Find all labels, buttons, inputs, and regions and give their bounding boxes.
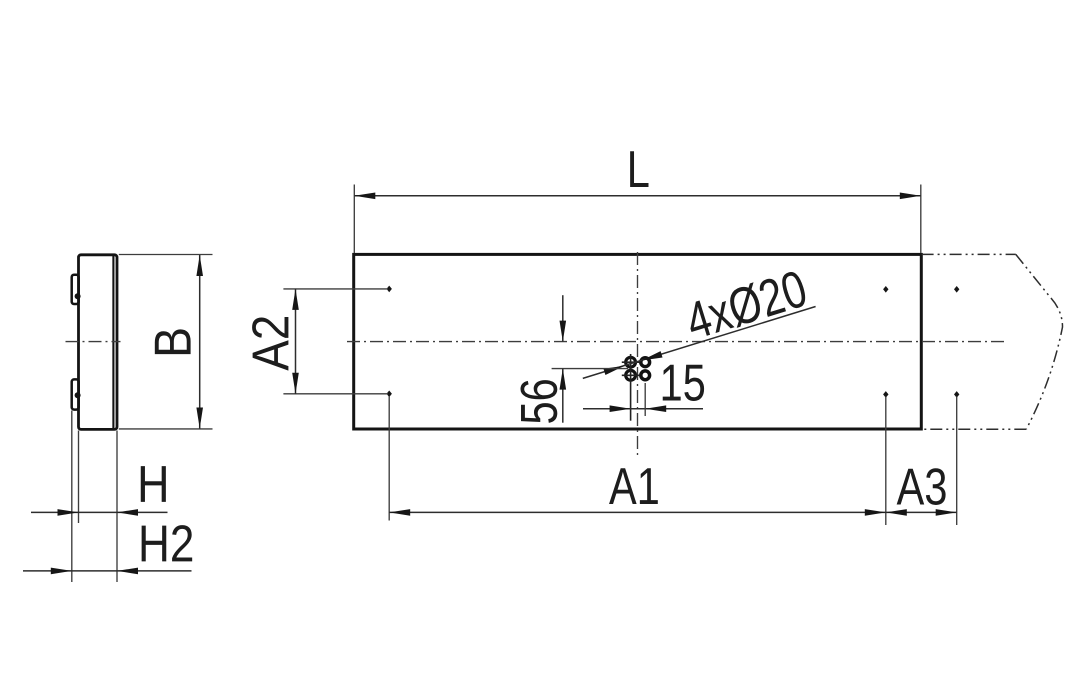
dimension A2 label bbox=[252, 317, 288, 371]
hole group circle top-right bbox=[641, 358, 650, 367]
dimension B extension line top bbox=[119, 254, 213, 256]
dimension A3 arrow right bbox=[936, 509, 957, 516]
clip tab upper bbox=[72, 275, 79, 304]
dimension L line bbox=[354, 195, 921, 197]
dimension H2 arrow right bbox=[117, 568, 138, 575]
label 4xO20 bbox=[683, 269, 809, 341]
dimension 56 line upper tail bbox=[562, 295, 564, 341]
dimension L arrow right bbox=[900, 193, 921, 200]
dimension L label bbox=[630, 151, 648, 187]
hole marker bottom-right bbox=[954, 391, 959, 398]
dimension A2 arrow top bbox=[292, 289, 299, 310]
hole marker top-left bbox=[387, 286, 392, 293]
dimension H arrow right bbox=[117, 509, 138, 516]
dimension H2 arrow left bbox=[51, 568, 72, 575]
dimension A1 line bbox=[389, 511, 886, 513]
dimension H line bbox=[31, 511, 168, 513]
dimension 56 arrow lower bbox=[560, 369, 567, 390]
main vertical center line bbox=[637, 252, 639, 457]
hole group circle bottom-right bbox=[641, 371, 650, 380]
hole group cross horizontal top bbox=[622, 361, 640, 363]
dimension A2 extension bottom bbox=[283, 393, 388, 395]
dimension L extension left bbox=[353, 185, 355, 254]
hole marker top-right bbox=[954, 286, 959, 293]
dimension 15 label bbox=[663, 365, 704, 401]
dimension 56 arrow upper bbox=[560, 321, 567, 342]
hole marker top-mid bbox=[883, 286, 888, 293]
dimension H label bbox=[141, 466, 166, 502]
dimension B arrow bottom bbox=[196, 408, 203, 429]
dimension 56 line lower tail bbox=[562, 369, 564, 423]
phantom break outline top bbox=[922, 253, 1016, 255]
hole marker bottom-left bbox=[387, 391, 392, 398]
hole group cross horizontal bottom bbox=[622, 374, 640, 376]
clip detent lower bbox=[75, 392, 81, 398]
dimension A1 extension left bbox=[388, 396, 390, 521]
dimension A1/A3 extension mid bbox=[885, 397, 887, 526]
leader line 4xO20 bbox=[583, 307, 816, 379]
dimension A1 arrow right bbox=[865, 509, 886, 516]
dimension A2 arrow bottom bbox=[292, 373, 299, 394]
dimension A3 extension right bbox=[956, 397, 958, 526]
main horizontal center line bbox=[347, 341, 1005, 343]
hole marker bottom-mid bbox=[883, 391, 888, 398]
side view body plate bbox=[79, 255, 118, 430]
dimension B label bbox=[155, 329, 191, 354]
side view inner face line bbox=[112, 256, 114, 429]
clip detent upper bbox=[75, 293, 81, 299]
dimension B line bbox=[199, 255, 201, 429]
dimension A3 label bbox=[897, 468, 946, 505]
dimension 56 label bbox=[520, 380, 557, 423]
dimension 15 extension right bbox=[644, 383, 646, 416]
dimension 15 arrow right bbox=[645, 405, 666, 412]
dimension 15 arrow left bbox=[610, 405, 631, 412]
clip tab lower bbox=[72, 379, 79, 409]
H/H2 extension line (clip face) bbox=[71, 411, 73, 583]
hole group cross vertical bbox=[630, 354, 632, 421]
dimension 15 line bbox=[583, 408, 703, 410]
side view center line bbox=[66, 341, 121, 343]
dimension B extension line bottom bbox=[119, 428, 213, 430]
dimension A1 label bbox=[609, 468, 658, 504]
dimension A1 arrow left bbox=[389, 509, 410, 516]
leader arrow upper-right bbox=[641, 351, 663, 364]
phantom break outline right bbox=[1016, 254, 1063, 429]
main plate outline bbox=[354, 254, 922, 429]
hole group circle bottom-left bbox=[626, 370, 636, 380]
phantom break outline bottom bbox=[922, 428, 1027, 430]
dimension L extension right bbox=[920, 185, 922, 254]
dimension A3 line bbox=[886, 511, 957, 513]
H/H2 extension line (outer face) bbox=[116, 431, 118, 583]
dimension A3 arrow left bbox=[886, 509, 907, 516]
dimension A2 extension top bbox=[283, 288, 388, 290]
dimension B arrow top bbox=[196, 255, 203, 276]
leader arrow lower-left bbox=[603, 363, 625, 376]
dimension H2 label bbox=[142, 525, 193, 561]
H extension line (body face) bbox=[78, 431, 80, 524]
dimension H arrow left bbox=[58, 509, 79, 516]
hole group circle top-left bbox=[626, 357, 636, 367]
dimension 56 extension bbox=[552, 368, 628, 370]
dimension H2 line bbox=[23, 570, 192, 572]
dimension A2 line bbox=[295, 289, 297, 394]
dimension L arrow left bbox=[354, 193, 375, 200]
